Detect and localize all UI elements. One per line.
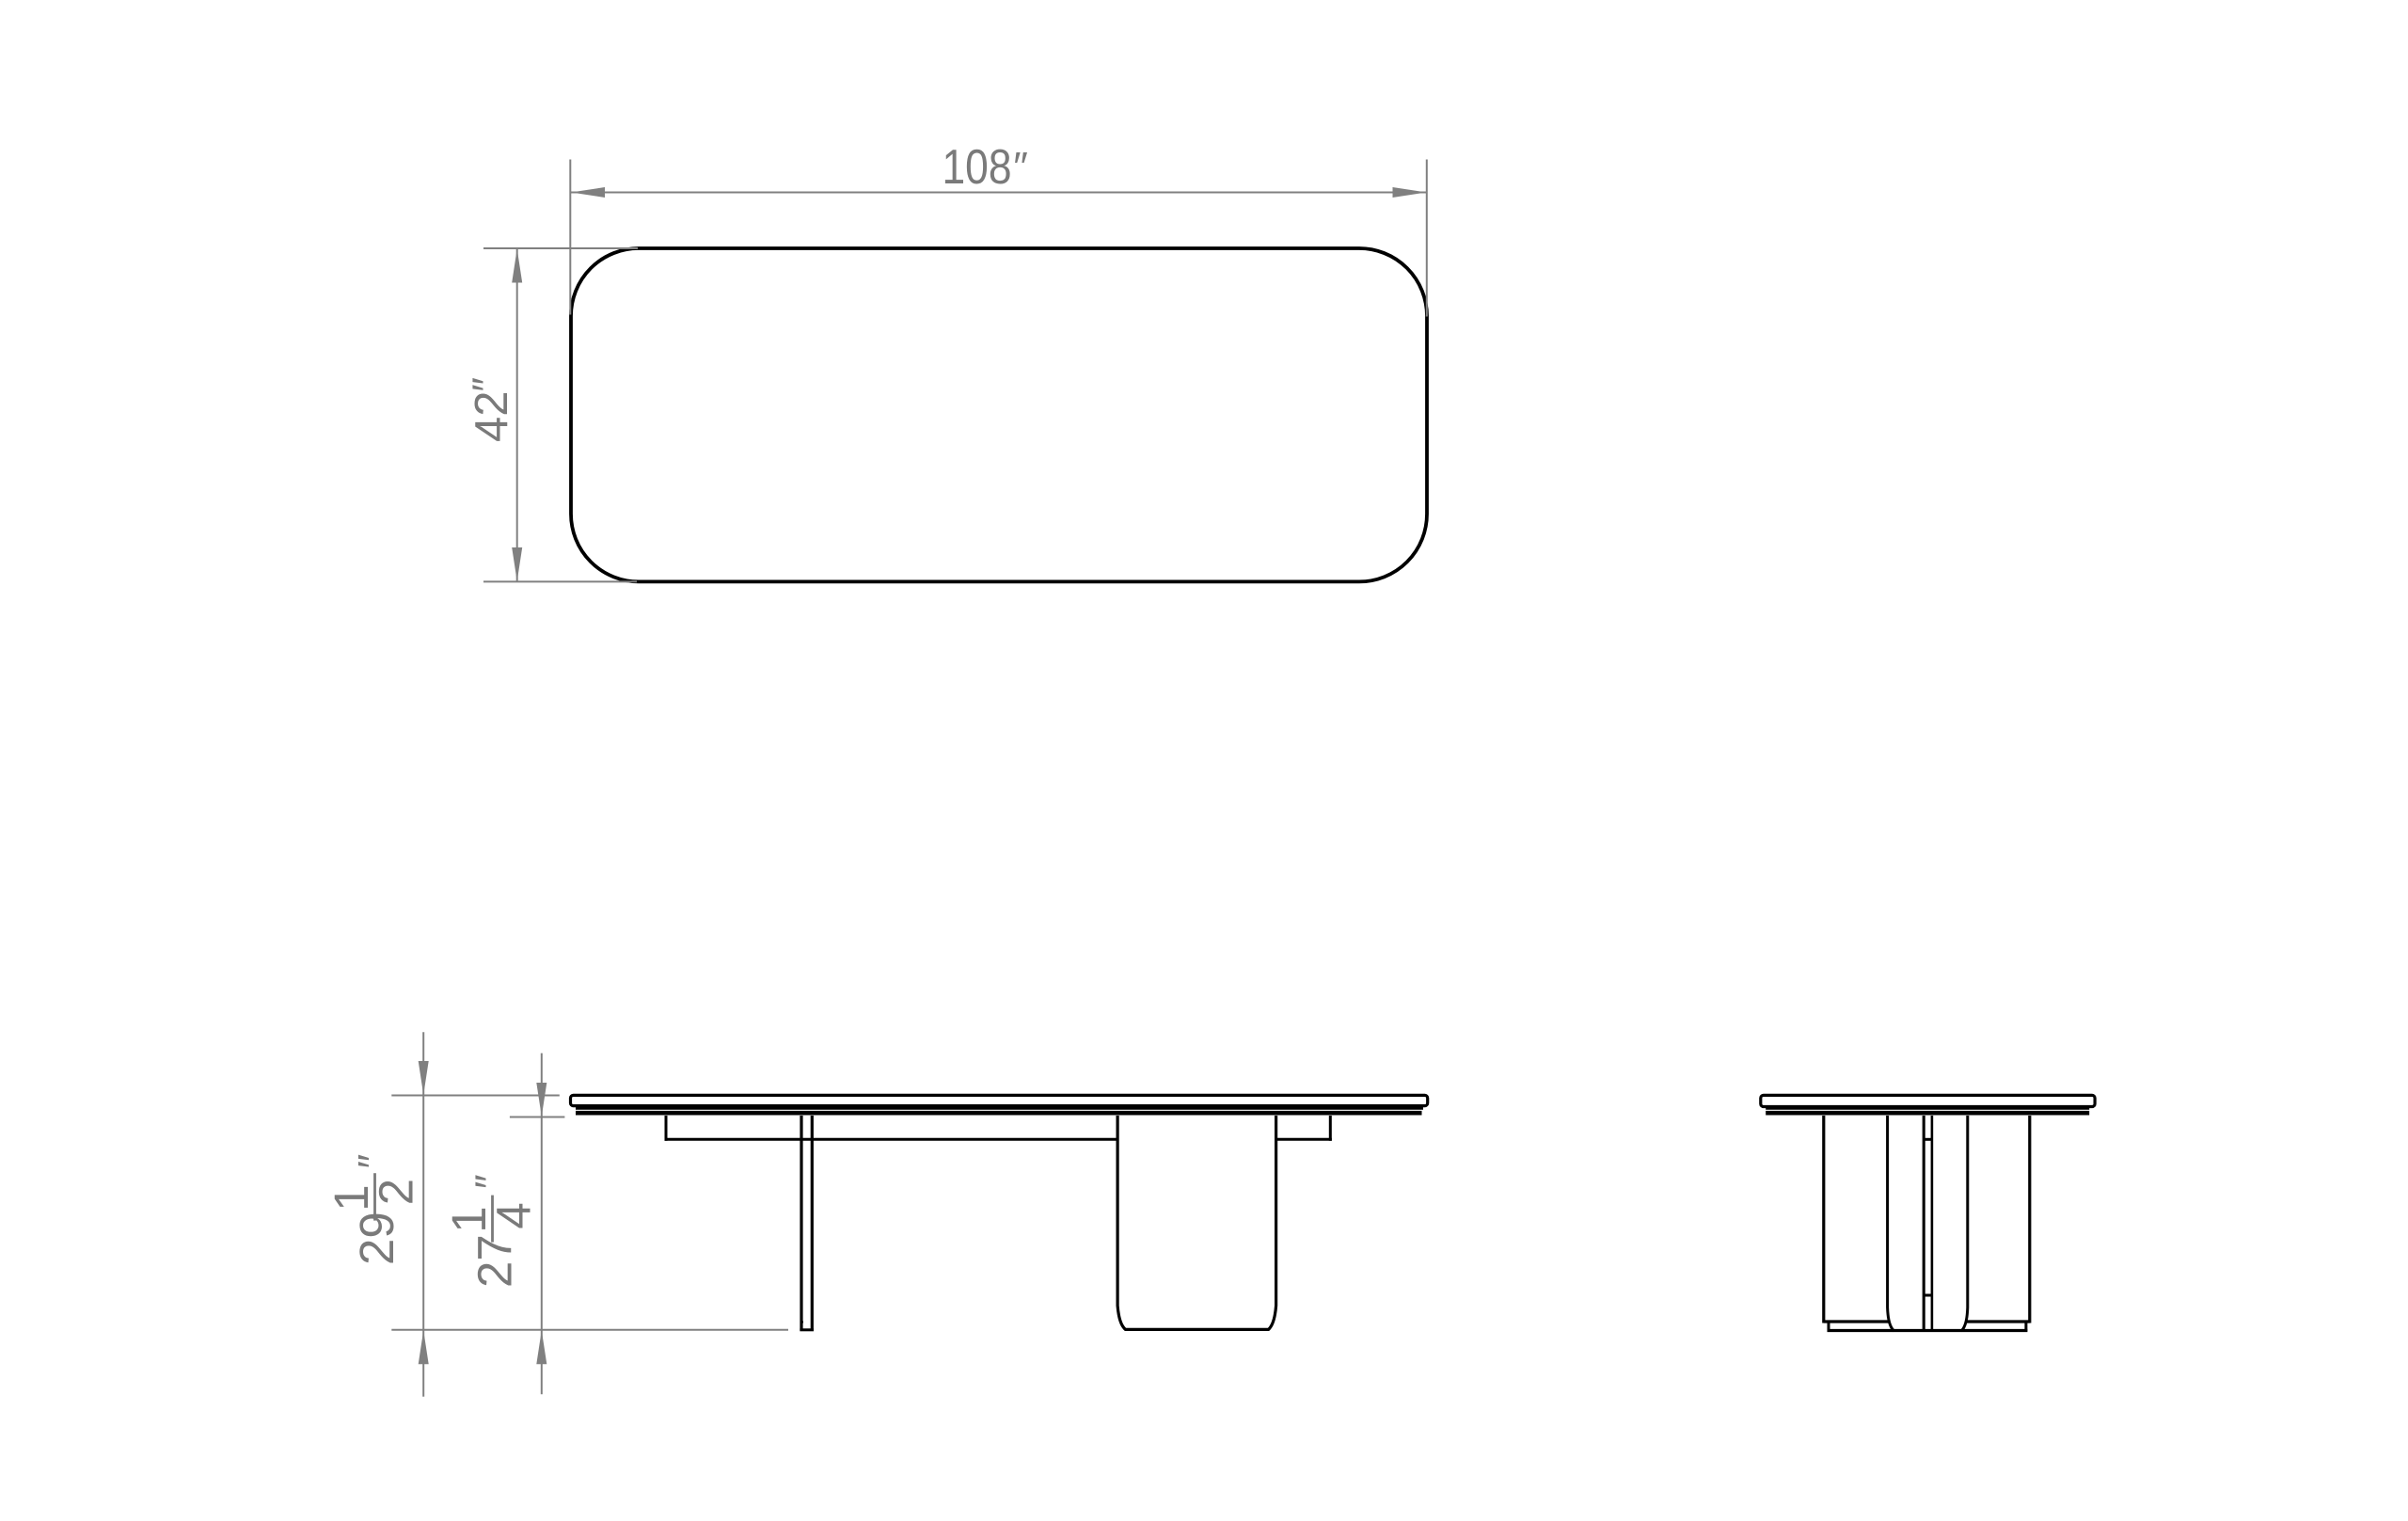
dimension line 108	[570, 192, 1427, 194]
side: sub-top band upper line	[1766, 1106, 2089, 1109]
dimension text 42" (rotated)	[465, 377, 517, 442]
side: band step tick left	[1775, 1107, 1778, 1109]
front: apron bottom line right of big leg	[1275, 1138, 1332, 1141]
svg-text:″: ″	[467, 1174, 514, 1189]
front: band step tick left	[585, 1106, 588, 1109]
side: tabletop slab	[1761, 1095, 2095, 1106]
svg-text:42: 42	[467, 390, 517, 442]
front: blade leg foot cap	[800, 1328, 814, 1331]
front: dimension line 29 1/2	[422, 1032, 424, 1397]
extension line left (for 108 dim)	[569, 160, 571, 315]
front: dimension text 29 1/2" (rotated with stacked fraction)	[325, 1154, 423, 1265]
front: arrow top of 27 1/4 dim	[536, 1083, 547, 1117]
front: apron bottom line left of big leg	[665, 1138, 1119, 1141]
side: panel bottom edge left segment	[1824, 1320, 1890, 1323]
side: center leg tick (foot curve start)	[1923, 1294, 1933, 1297]
side: plinth left edge	[1828, 1323, 1830, 1332]
front: apron left vertical edge	[665, 1116, 668, 1141]
front: arrow top of 29 1/2 dim (points down to ext line)	[419, 1061, 429, 1095]
front: blade leg left edge	[800, 1116, 802, 1331]
svg-text:2: 2	[369, 1179, 422, 1205]
side: inner curve right	[1961, 1116, 1968, 1331]
side: sub-top band lower line	[1766, 1111, 2089, 1116]
front: dimension line 27 1/4	[541, 1054, 543, 1395]
svg-text:″: ″	[465, 377, 511, 392]
front: extension line under band (27 1/4 dim)	[510, 1117, 565, 1118]
arrow bottom of 42 dim	[512, 547, 522, 581]
extension line bottom (for 42 dim)	[483, 580, 637, 582]
front: dimension text 27 1/4" (rotated with stacked fraction)	[442, 1174, 541, 1288]
side: plinth bottom line	[1828, 1329, 2028, 1332]
front: arrow bottom of 29 1/2 dim (points up to floor line)	[419, 1330, 429, 1364]
dimension line 42	[516, 248, 518, 581]
front: extension line floor	[391, 1329, 788, 1331]
extension line right (for 108 dim)	[1426, 160, 1428, 317]
side: plinth right edge	[2024, 1323, 2027, 1332]
arrow right of 108 dim	[1393, 187, 1427, 198]
front: sub-top band upper line	[576, 1106, 1423, 1109]
side: center leg edge line A	[1923, 1116, 1925, 1331]
svg-text:29: 29	[350, 1212, 404, 1265]
side: center leg tick (apron bottom)	[1923, 1138, 1933, 1141]
front: sub-top band lower line	[576, 1111, 1422, 1116]
side: inner curve left	[1888, 1116, 1894, 1331]
front: extension line tabletop top (29 1/2 dim)	[391, 1095, 560, 1097]
svg-text:108: 108	[943, 140, 1012, 195]
svg-text:″: ″	[1013, 144, 1028, 190]
front: tabletop slab	[571, 1095, 1428, 1105]
side: wide panel right edge	[2028, 1116, 2031, 1323]
arrow top of 42 dim	[512, 249, 522, 283]
side: center leg edge line B	[1931, 1116, 1934, 1331]
front: blade leg foot step	[800, 1322, 804, 1323]
side: wide panel left edge	[1822, 1116, 1825, 1323]
svg-text:27: 27	[468, 1234, 522, 1288]
side: panel bottom edge right segment	[1967, 1320, 2030, 1323]
tabletop top-view outline (108 x 42 rounded rectangle)	[571, 248, 1427, 581]
side: band step tick right	[2077, 1107, 2080, 1109]
front: arrow bottom of 27 1/4 dim	[536, 1330, 547, 1364]
svg-text:4: 4	[486, 1202, 540, 1228]
front: band step tick right	[1410, 1106, 1413, 1109]
arrow left of 108 dim	[571, 187, 605, 198]
svg-text:″: ″	[350, 1154, 396, 1169]
extension line top (for 42 dim)	[483, 247, 638, 249]
front: blade leg right edge	[811, 1116, 814, 1331]
front: big leg outline	[1117, 1116, 1276, 1329]
front: apron right vertical edge	[1329, 1116, 1332, 1141]
